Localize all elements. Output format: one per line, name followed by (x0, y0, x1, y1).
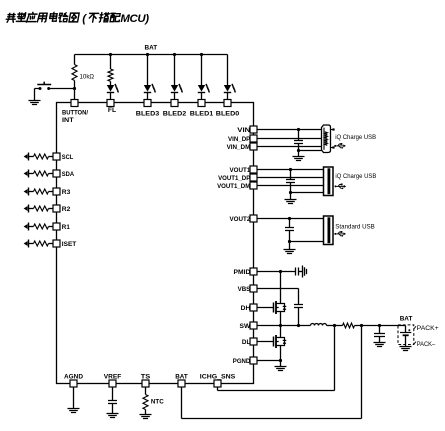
wire AGND to ground (73, 387, 75, 409)
wire to ground VOUT2 (289, 242, 291, 250)
pin VOUT1_DP (250, 174, 257, 181)
wire terminal to R-R2 (29, 208, 34, 210)
capacitor C-BAT (374, 334, 385, 337)
wire DH to Q1 gate (257, 307, 274, 309)
wire R-pullup to BUTTON pin (74, 81, 76, 100)
wire rail to LED BLED2 (174, 55, 176, 86)
wire battery positive (405, 326, 407, 333)
svg-text:SCL: SCL (62, 154, 74, 161)
wire terminal to R-ISET (29, 243, 34, 245)
capacitor C-VOUT2 (285, 228, 294, 231)
wire gnd node to USB1 (299, 150, 322, 152)
wire C-BST to SW (298, 308, 300, 326)
wire battery negative (405, 335, 407, 346)
pin ICHG_SNS (214, 380, 221, 387)
svg-text:BUTTON/: BUTTON/ (62, 110, 88, 117)
svg-text:TS: TS (141, 374, 151, 381)
wire rail corner to LED BLED0 (227, 55, 229, 86)
pin SDA (53, 170, 60, 177)
wire Q1 source to SW (280, 312, 282, 326)
junction VOUT1 gnd node (289, 191, 292, 194)
pin VIN (250, 126, 257, 133)
capacitor C-VIN (294, 141, 303, 144)
pin BLED2 (171, 100, 178, 107)
transistor Q2 low-side NFET (274, 335, 287, 348)
svg-text:FL: FL (108, 107, 116, 114)
pin VBS (250, 285, 257, 292)
terminal R1 (24, 223, 29, 231)
wire LED BLED3 to pin (147, 93, 149, 100)
svg-text:MCU): MCU) (120, 13, 149, 25)
wire R-FL to LED FL (110, 81, 112, 85)
wire VOUT1 to USB2 (257, 169, 324, 171)
connector USB3 Standard USB plug (324, 216, 334, 245)
connector USB2 iQ Charge plug (324, 167, 334, 196)
wire to ground VOUT1 (290, 193, 292, 200)
wire button to node (49, 88, 75, 90)
title hanzi 典型应用电路图(不搭配 MCU) (6, 12, 121, 22)
wire rail to R-FL (110, 55, 112, 70)
capacitor C-VOUT1 (286, 180, 295, 183)
pin TS (142, 380, 149, 387)
pin VOUT2 (250, 215, 257, 222)
USB icon 3 (334, 231, 346, 237)
resistor R-ISET (34, 241, 49, 246)
wire terminal to R-SDA (29, 173, 34, 175)
svg-text:AGND: AGND (64, 374, 83, 381)
junction battery cap (378, 324, 381, 327)
resistor R-sense (343, 323, 355, 328)
wire NTC to ground (145, 410, 147, 415)
junction SW bootstrap (297, 324, 300, 327)
svg-text:Standard USB: Standard USB (335, 224, 375, 231)
pin R3 (53, 188, 60, 195)
svg-text:VIN: VIN (237, 127, 250, 134)
wire LED BLED0 to pin (227, 93, 229, 100)
tick PACK+ (414, 326, 416, 329)
pin FL (107, 100, 114, 107)
junction rail FL (109, 53, 112, 56)
svg-text:VREF: VREF (104, 374, 122, 381)
junction VOUT1 cap top (289, 168, 292, 171)
terminal ISET (24, 240, 29, 248)
junction VOUT2 cap top (288, 217, 291, 220)
svg-text:BLED0: BLED0 (216, 111, 240, 118)
junction PMID (279, 270, 282, 273)
svg-text:PGND: PGND (233, 358, 251, 365)
svg-text:ICHG_SNS: ICHG_SNS (200, 374, 236, 381)
svg-text:SDA: SDA (62, 171, 75, 178)
svg-text:10kΩ: 10kΩ (80, 73, 95, 80)
svg-text:DH: DH (241, 305, 251, 312)
wire VIN_DP to USB1 (257, 138, 322, 140)
resistor FL series (108, 69, 113, 81)
wire R-R1 to pin (49, 226, 54, 228)
junction rail BLED2 (173, 53, 176, 56)
resistor R-SCL (34, 154, 49, 159)
svg-text:iQ Charge USB: iQ Charge USB (335, 134, 376, 141)
resistor NTC (143, 395, 148, 410)
ground PMID sideways (303, 266, 307, 278)
battery plus mark (408, 329, 410, 331)
wire gnd node to USB2 (291, 192, 324, 194)
wire C-VREF to ground (112, 404, 114, 414)
wire VOUT2 to USB3 (257, 218, 324, 220)
terminal R2 (24, 205, 29, 213)
terminal SCL (24, 153, 29, 161)
svg-text:R3: R3 (62, 189, 71, 196)
wire VOUT2 to C-VOUT2 (289, 219, 291, 228)
junction VIN cap top (297, 128, 300, 131)
ground TS (140, 415, 152, 419)
wire VOUT1_DM to USB2 (257, 185, 324, 187)
LED FL (107, 84, 119, 93)
wire button to ground (35, 89, 41, 101)
wire C-BAT to ground (379, 337, 381, 343)
ground AGND (68, 409, 80, 413)
USB icon 1 (334, 143, 346, 149)
wire R-sense to battery (355, 325, 406, 327)
wire VBS (257, 288, 299, 290)
capacitor C-PMID (296, 268, 299, 276)
svg-text:BAT: BAT (145, 44, 158, 51)
capacitor C-VREF (108, 401, 117, 404)
wire Q2 source to PGND (280, 346, 282, 361)
wire terminal to R-SCL (29, 156, 34, 158)
pin VOUT1_DM (250, 182, 257, 189)
wire VREF to C-VREF (112, 387, 114, 401)
wire R-R3 to pin (49, 191, 54, 193)
pin VIN_DM (250, 143, 257, 150)
resistor 10kOhm pull-up (72, 65, 77, 81)
svg-text:PACK+: PACK+ (417, 325, 439, 332)
pin ISET (53, 240, 60, 247)
wire Q1 drain stub (280, 303, 282, 304)
ground button (29, 101, 41, 105)
wire rail to LED BLED3 (147, 55, 149, 86)
resistor R-SDA (34, 171, 49, 176)
wire PMID to Q1 drain (280, 272, 282, 303)
wire VBS to C-BST (298, 289, 300, 305)
junction rail BLED1 (200, 53, 203, 56)
chip U1 body (57, 103, 254, 384)
junction button node (73, 87, 76, 90)
resistor R-R3 (34, 189, 49, 194)
wire DL to Q2 gate (257, 341, 274, 343)
capacitor C-BST bootstrap (294, 305, 303, 308)
wire terminal to R-R3 (29, 191, 34, 193)
svg-text:BLED3: BLED3 (136, 111, 160, 118)
pin VREF (109, 380, 116, 387)
wire Q2 drain to SW (280, 326, 282, 338)
pin DL (250, 338, 257, 345)
wire SW (257, 325, 311, 327)
wire rail to LED BLED1 (201, 55, 203, 86)
USB icon 2 (335, 184, 347, 190)
connector USB1 contacts (325, 132, 328, 146)
wire VIN_DM to USB1 (257, 146, 322, 148)
wire LED BLED2 to pin (174, 93, 176, 100)
ground VOUT2 (284, 250, 296, 254)
pin VIN_DP (250, 135, 257, 142)
connector USB1 iQ Charge receptacle (322, 125, 331, 153)
pin BLED0 (224, 100, 231, 107)
ground VREF (107, 414, 119, 418)
wire R-ISET to pin (49, 243, 54, 245)
wire to ground VIN (298, 151, 300, 157)
pin AGND (70, 380, 77, 387)
wire R-SCL to pin (49, 156, 54, 158)
wire PGND to ground (280, 361, 282, 367)
wire C-VOUT1 to gnd node (290, 183, 292, 193)
ground battery (400, 347, 412, 351)
svg-text:INT: INT (62, 117, 74, 124)
svg-text:R1: R1 (62, 224, 70, 231)
svg-text:PMID: PMID (234, 269, 251, 276)
ground VOUT1 (285, 200, 297, 204)
svg-text:PACK–: PACK– (417, 341, 436, 348)
svg-text:VOUT2: VOUT2 (230, 216, 251, 223)
battery cell BT1 plates (400, 332, 411, 334)
wire LED BLED1 to pin (201, 93, 203, 100)
wire C-VOUT2 to gnd node (289, 231, 291, 242)
svg-text:VIN_DP: VIN_DP (228, 136, 251, 143)
svg-text:DL: DL (242, 339, 250, 346)
svg-text:VIN_DM: VIN_DM (227, 144, 251, 151)
svg-text:VOUT1_DP: VOUT1_DP (218, 175, 251, 182)
svg-text:BAT: BAT (400, 315, 413, 322)
svg-text:NTC: NTC (151, 398, 164, 405)
pin VOUT1 (250, 166, 257, 173)
svg-text:VOUT1: VOUT1 (230, 167, 251, 174)
pin BAT (178, 380, 185, 387)
wire ICHG_SNS to sense node (218, 326, 335, 391)
wire BAT pin to battery node (182, 326, 362, 419)
wire R-R2 to pin (49, 208, 54, 210)
junction PGND (279, 359, 282, 362)
pin BLED1 (198, 100, 205, 107)
svg-text:BLED1: BLED1 (190, 111, 214, 118)
junction VIN gnd node (297, 149, 300, 152)
wire VOUT1_DP to USB2 (257, 177, 324, 179)
pin BUTTON/INT (71, 100, 78, 107)
svg-text:VBS: VBS (238, 286, 251, 293)
wire PMID (257, 271, 296, 273)
pin PGND (250, 357, 257, 364)
terminal SDA (24, 170, 29, 178)
svg-text:VOUT1_DM: VOUT1_DM (217, 183, 250, 190)
junction VOUT2 gnd node (288, 240, 291, 243)
svg-text:R2: R2 (62, 206, 71, 213)
LED BLED3 (144, 84, 156, 93)
ground C-BAT (374, 343, 386, 347)
pin SW (250, 322, 257, 329)
wire to C-BAT (379, 326, 381, 334)
pin R1 (53, 223, 60, 230)
junction BAT feedback (360, 324, 363, 327)
wire C-VIN to gnd node (298, 144, 300, 151)
junction rail BLED3 (146, 53, 149, 56)
inductor L1 (311, 324, 327, 326)
wire PGND (257, 360, 281, 362)
wire BAT rail (75, 54, 228, 56)
ground VIN (293, 157, 305, 161)
svg-text:ISET: ISET (62, 241, 77, 248)
pushbutton S1 (37, 82, 51, 85)
wire C-PMID to ground (299, 271, 303, 273)
wire TS to NTC (145, 387, 147, 395)
resistor R-R2 (34, 206, 49, 211)
wire rail to R-pullup (74, 55, 76, 65)
resistor R-R1 (34, 224, 49, 229)
wire VIN to USB1 (257, 129, 322, 131)
wire VOUT1 to C-VOUT1 (290, 170, 292, 180)
LED BLED0 (224, 84, 236, 93)
pin R2 (53, 205, 60, 212)
LED BLED1 (198, 84, 210, 93)
transistor Q1 high-side NFET (274, 301, 287, 314)
wire L1 to R-sense (327, 325, 343, 327)
battery dashed outline (398, 325, 414, 345)
connector USB1 mount stubs (331, 130, 333, 148)
wire VIN to C-VIN (298, 130, 300, 141)
wire LED FL to pin (110, 93, 112, 100)
svg-text:SW: SW (240, 323, 252, 330)
svg-text:iQ Charge USB: iQ Charge USB (335, 173, 376, 180)
junction SW fets (279, 324, 282, 327)
wire R-SDA to pin (49, 173, 54, 175)
pin PMID (250, 268, 257, 275)
svg-text:BLED2: BLED2 (163, 111, 187, 118)
wire terminal to R-R1 (29, 226, 34, 228)
pin BLED3 (144, 100, 151, 107)
tick PACK- (414, 342, 416, 344)
terminal R3 (24, 188, 29, 196)
svg-text:BAT: BAT (175, 374, 188, 381)
ground PGND (275, 367, 287, 371)
pin DH (250, 304, 257, 311)
LED BLED2 (171, 84, 183, 93)
pin SCL (53, 153, 60, 160)
junction ICHG sense left (333, 324, 336, 327)
wire gnd node to USB3 (290, 241, 324, 243)
